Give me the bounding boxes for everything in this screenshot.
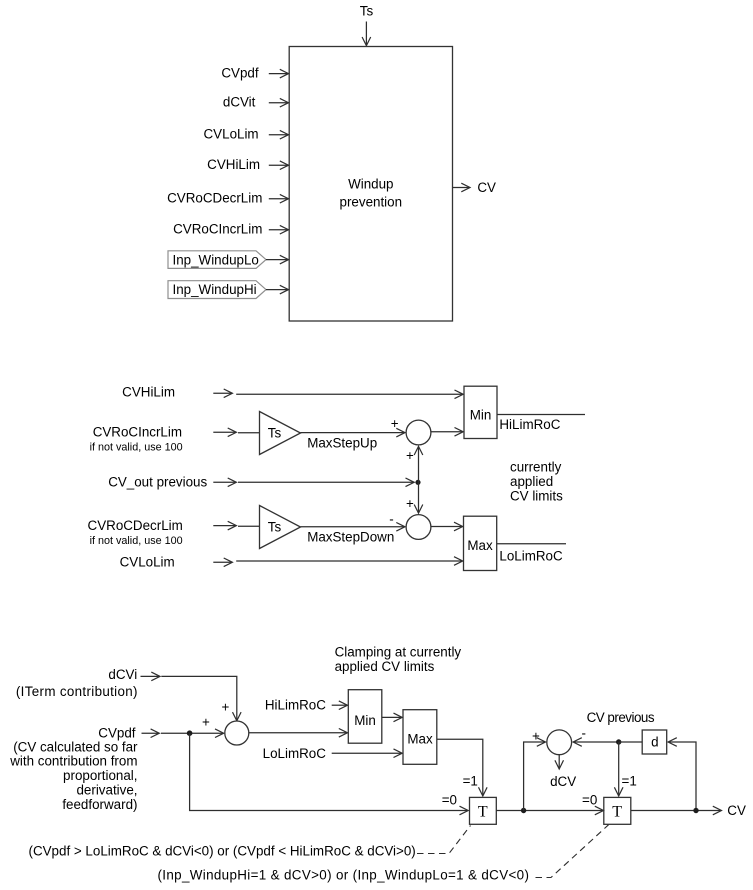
node CVLoLim input label [204, 127, 259, 142]
svg-text:+: + [406, 496, 414, 511]
svg-text:Ts: Ts [268, 425, 282, 440]
summing junction S1 [406, 420, 431, 445]
switch block T1 [470, 797, 497, 824]
wire J4 down into T2 top [618, 742, 620, 796]
svg-text:proportional,: proportional, [63, 768, 137, 783]
wire T1 output to junction [496, 810, 603, 812]
wire CVLoLim arrow [269, 134, 288, 136]
node CVHiLim label [122, 385, 175, 400]
svg-text:Min: Min [354, 713, 376, 728]
node CVRoCIncrLim input label [173, 222, 262, 237]
block Max2 [403, 710, 437, 765]
junction dot J3 [521, 808, 526, 813]
wire CVHiLim arrow [269, 164, 288, 166]
svg-text:CV previous: CV previous [587, 710, 655, 725]
wire CVHiLim arrow [213, 392, 232, 394]
junction dot J2 on CVpdf wire [187, 730, 193, 736]
node plus sign S1 left input [391, 416, 399, 431]
summing junction S4 [547, 730, 572, 755]
junction dot J5 [693, 808, 698, 813]
svg-text:Max: Max [467, 538, 493, 553]
svg-text:CVHiLim: CVHiLim [207, 157, 260, 172]
svg-text:+: + [391, 416, 399, 431]
svg-text:HiLimRoC: HiLimRoC [499, 417, 560, 432]
node dCVi label [16, 667, 138, 699]
block Min [464, 386, 497, 438]
svg-text:feedforward): feedforward) [62, 797, 137, 812]
wire J1 up into S1 [418, 447, 420, 483]
svg-text:CVHiLim: CVHiLim [122, 385, 175, 400]
node CVpdf input label [221, 66, 258, 81]
tag Inp_WindupHi [168, 281, 266, 299]
dashed condition link to T1 [417, 826, 471, 854]
svg-text:LoLimRoC: LoLimRoC [263, 746, 327, 761]
svg-text:CVpdf: CVpdf [221, 66, 258, 81]
svg-text:Inp_WindupLo: Inp_WindupLo [173, 252, 259, 267]
summing junction S2 [406, 515, 431, 540]
node =0 label T1 [442, 793, 457, 808]
wire CV_out previous arrow [213, 481, 236, 483]
wire LoLimRoC into Max2 [332, 752, 402, 754]
svg-text:-: - [389, 512, 393, 527]
svg-text:=1: =1 [463, 773, 478, 788]
node CVLoLim label [120, 554, 175, 569]
svg-text:CVRoCIncrLim: CVRoCIncrLim [173, 222, 262, 237]
wire feedback into d box [669, 742, 696, 811]
node CV final output label [727, 803, 746, 818]
svg-text:Min: Min [470, 407, 492, 422]
block d delay [642, 730, 667, 754]
wire J3 up into S4 [524, 742, 545, 811]
wire dCVit arrow [269, 102, 288, 104]
wire LoLimRoC net [497, 543, 566, 545]
node CV output label [477, 180, 496, 195]
node CV previous label [587, 710, 655, 725]
svg-text:CVRoCDecrLim: CVRoCDecrLim [88, 518, 183, 533]
svg-text:T: T [478, 803, 488, 820]
wire MaxStepDown to sum2 [301, 526, 405, 528]
svg-text:T: T [612, 803, 622, 820]
node plus sign S3 left input [202, 715, 210, 730]
wire HiLimRoC net [497, 414, 585, 416]
svg-text:with contribution from: with contribution from [9, 754, 137, 769]
wire HiLimRoC arrow into Min2 [332, 704, 347, 706]
node HiLimRoC net label [499, 417, 560, 432]
wire S1 to Min [431, 431, 463, 433]
node dCV label [550, 774, 576, 789]
svg-text:derivative,: derivative, [76, 783, 137, 798]
wire CVRoCIncrLim arrow [213, 431, 236, 433]
svg-text:prevention: prevention [340, 195, 403, 210]
dashed condition link to T2 [536, 825, 609, 878]
wire CVpdf arrow [142, 732, 159, 734]
wire Min2 to Max2 [382, 716, 402, 718]
node plus sign S3 top input [222, 699, 230, 714]
svg-text:(CV calculated so far: (CV calculated so far [13, 739, 138, 754]
node plus sign S4 left input [532, 728, 540, 743]
node LoLimRoC net label [499, 548, 563, 563]
wire CVLoLim to Max [236, 560, 462, 562]
block Min2 [348, 690, 382, 744]
node CVHiLim input label [207, 157, 260, 172]
svg-text:Ts: Ts [268, 519, 282, 534]
wire CVRoCDecrLim to gain [238, 525, 259, 527]
svg-text:d: d [651, 734, 658, 749]
gain block Ts MaxStepUp [260, 412, 378, 455]
node HiLimRoC input label [265, 697, 326, 712]
svg-text:CV_out previous: CV_out previous [108, 474, 207, 489]
svg-text:CVRoCDecrLim: CVRoCDecrLim [167, 191, 262, 206]
svg-text:+: + [202, 715, 210, 730]
summing junction S3 [225, 721, 249, 745]
svg-text:+: + [222, 699, 230, 714]
wire S2 to Max [431, 526, 462, 528]
wire CVpdf feedback to T1 [190, 733, 468, 810]
wire CV_out previous to junction [238, 481, 414, 483]
junction dot J1 [415, 480, 420, 485]
switch block T2 [604, 797, 631, 824]
wire S3 to Min2 [249, 732, 347, 734]
svg-text:currently: currently [510, 459, 562, 474]
note CV calculated so far [9, 739, 138, 812]
wire Max2 to T1 top [437, 739, 483, 795]
svg-text:=1: =1 [622, 773, 637, 788]
junction dot J4 [616, 739, 621, 744]
svg-text:if not valid, use 100: if not valid, use 100 [90, 535, 183, 547]
svg-text:CV: CV [477, 180, 496, 195]
gain block Ts MaxStepDown [260, 506, 395, 549]
note currently applied CV limits [510, 459, 563, 503]
block Windup prevention [289, 47, 452, 322]
wire CVRoCIncrLim to gain [238, 432, 259, 434]
wire CVRoCDecrLim arrow [269, 198, 288, 200]
note Clamping at currently applied CV limits [335, 644, 462, 674]
svg-text:(CVpdf > LoLimRoC & dCVi<0) or: (CVpdf > LoLimRoC & dCVi<0) or (CVpdf < … [29, 844, 416, 859]
wire T2 output [631, 810, 721, 812]
node CV_out previous label [108, 474, 207, 489]
svg-text:MaxStepDown: MaxStepDown [307, 530, 394, 545]
wire J4 to S4 right input [574, 741, 619, 743]
svg-text:CV limits: CV limits [510, 488, 563, 503]
node CVRoCDecrLim input label [167, 191, 262, 206]
node LoLimRoC input label [263, 746, 327, 761]
wire CVRoCIncrLim arrow [269, 229, 288, 231]
wire Inp_WindupLo arrow [266, 259, 288, 261]
svg-text:LoLimRoC: LoLimRoC [499, 548, 563, 563]
svg-text:Max: Max [407, 731, 433, 746]
svg-text:=0: =0 [582, 793, 597, 808]
wire J1 down into S2 [418, 482, 420, 512]
svg-text:dCVi: dCVi [108, 667, 137, 682]
svg-text:+: + [532, 728, 540, 743]
svg-text:applied: applied [510, 474, 553, 489]
node plus sign S2 top input [406, 496, 414, 511]
node dCVit input label [223, 94, 256, 109]
node minus sign S2 left input [389, 512, 393, 527]
wire CVpdf to S3 [161, 732, 223, 734]
wire MaxStepUp to sum1 [301, 432, 405, 434]
svg-text:Inp_WindupHi: Inp_WindupHi [173, 282, 257, 297]
node Ts label [360, 4, 374, 19]
svg-text:+: + [406, 448, 414, 463]
svg-text:CV: CV [727, 803, 746, 818]
node plus sign S1 bottom input [406, 448, 414, 463]
tag Inp_WindupLo [168, 251, 266, 269]
svg-text:Ts: Ts [360, 4, 374, 19]
svg-text:Windup: Windup [348, 177, 393, 192]
svg-text:CVRoCIncrLim: CVRoCIncrLim [93, 425, 182, 440]
wire dCVi arrow [141, 675, 160, 677]
wire dCVi into S3 top [161, 676, 237, 720]
svg-text:if not valid, use 100: if not valid, use 100 [90, 442, 183, 454]
note condition for T1 [29, 844, 416, 859]
node =0 label T2 [582, 793, 597, 808]
svg-text:Clamping at currently: Clamping at currently [335, 644, 462, 659]
node CVRoCDecrLim label [88, 518, 183, 547]
wire CVHiLim to Min [236, 393, 463, 395]
wire CV output of windup box [453, 187, 470, 189]
svg-text:(Inp_WindupHi=1 & dCV>0) or (I: (Inp_WindupHi=1 & dCV>0) or (Inp_WindupL… [158, 868, 530, 883]
svg-text:=0: =0 [442, 793, 457, 808]
note condition for T2 [158, 868, 530, 883]
wire Ts into windup box [365, 22, 367, 46]
svg-text:dCV: dCV [550, 774, 576, 789]
svg-text:MaxStepUp: MaxStepUp [307, 436, 377, 451]
svg-text:CVLoLim: CVLoLim [120, 554, 175, 569]
node =1 label T1 [463, 773, 478, 788]
node =1 label T2 [622, 773, 637, 788]
wire CVpdf arrow [269, 73, 288, 75]
svg-text:-: - [582, 726, 586, 741]
wire d output to J4 [619, 741, 643, 743]
svg-text:applied CV limits: applied CV limits [335, 659, 435, 674]
node CVpdf label [98, 726, 135, 741]
node CVRoCIncrLim label [90, 425, 183, 454]
svg-text:dCVit: dCVit [223, 94, 256, 109]
svg-text:CVLoLim: CVLoLim [204, 127, 259, 142]
svg-text:HiLimRoC: HiLimRoC [265, 697, 326, 712]
block Max [464, 516, 497, 570]
wire CVRoCDecrLim arrow [213, 525, 236, 527]
wire Inp_WindupHi arrow [266, 289, 288, 291]
node minus sign S4 right input [582, 726, 586, 741]
svg-text:(ITerm contribution): (ITerm contribution) [16, 684, 138, 699]
wire CVLoLim arrow [213, 561, 232, 563]
wire S4 down dCV [558, 755, 560, 769]
